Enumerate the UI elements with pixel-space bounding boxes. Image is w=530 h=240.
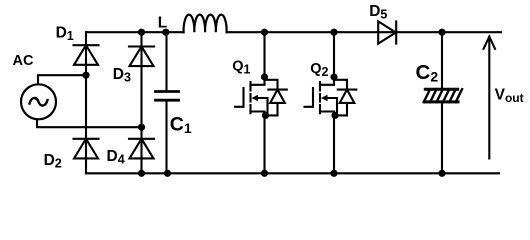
svg-text:AC: AC	[13, 53, 34, 69]
svg-text:L: L	[158, 15, 167, 32]
